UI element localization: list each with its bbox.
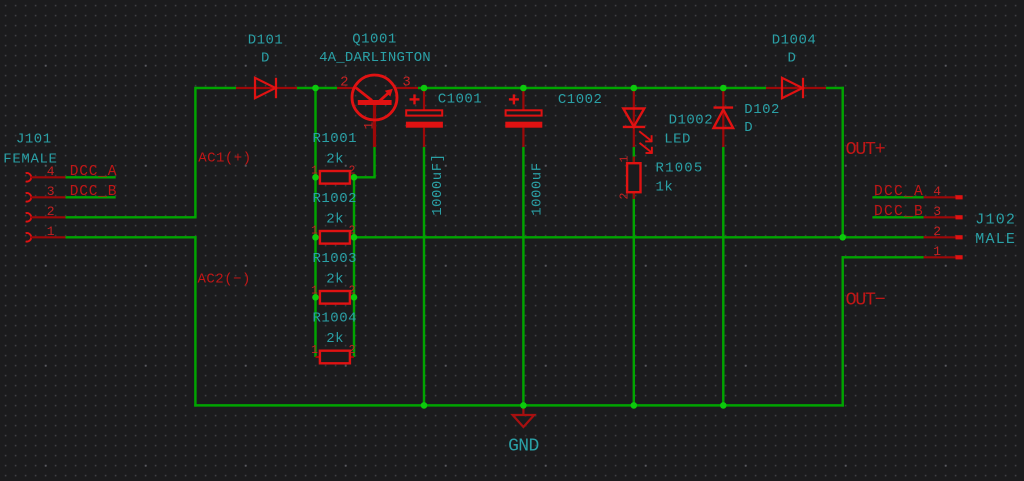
LED D1002 [623, 109, 653, 154]
node: D101 cathode / left rail top [312, 85, 319, 92]
svg-text:DCC_B: DCC_B [874, 204, 924, 220]
net label DCC_B (J102) [874, 204, 924, 220]
node: R1005 bottom / GND bus [631, 402, 638, 409]
connector J101 name labels [3, 132, 57, 168]
svg-text:D101: D101 [248, 33, 284, 49]
resistor R1002 [311, 224, 355, 243]
transistor Q1001 labels [319, 32, 431, 67]
wire: LED cathode through R1005 to bottom bus [633, 147, 635, 405]
capacitor C1002 [505, 94, 542, 127]
svg-text:AC2(−): AC2(−) [198, 272, 251, 288]
wire: top bus AC1 segment from corner to D101 [195, 87, 236, 89]
svg-text:DCC_A: DCC_A [874, 184, 924, 200]
node: R1002 pin2 / mid bus [351, 234, 358, 241]
transistor Q1001 body [352, 75, 397, 120]
svg-text:R1002: R1002 [313, 191, 358, 207]
resistor R1005 pin leads [633, 157, 635, 200]
svg-text:J101: J101 [16, 132, 52, 148]
wire: C1001 lower lead to bottom bus [423, 147, 425, 405]
svg-text:4: 4 [47, 164, 55, 179]
wire: top bus D1004 cathode to OUT+ corner [826, 87, 844, 89]
svg-text:D1002: D1002 [669, 113, 714, 129]
wire: J101 pin2 horizontal [66, 216, 197, 218]
svg-text:2k: 2k [326, 151, 344, 167]
transistor Q1001 pin1 lead [373, 104, 376, 147]
wire: resistor bank left rail [314, 88, 316, 357]
svg-text:1: 1 [618, 156, 631, 163]
ground symbol [513, 405, 535, 427]
capacitor C1002 labels [529, 92, 602, 216]
wire: J101 pin1 horizontal AC2(-) [66, 236, 197, 238]
transistor Q1001 pin numbers [340, 75, 411, 130]
connector J102 name labels [975, 211, 1016, 248]
svg-text:MALE: MALE [975, 231, 1016, 248]
node: LED D1002 top [631, 85, 638, 92]
svg-text:C1001: C1001 [438, 92, 483, 108]
svg-text:1000uF: 1000uF [529, 162, 545, 215]
transistor Q1001 pin3 lead [396, 87, 418, 89]
node: OUT+ / J102 pin2 [839, 234, 846, 241]
svg-text:D: D [744, 120, 753, 136]
node: R1001 pin2 / emitter [351, 174, 358, 181]
wire: resistor bank right rail [353, 177, 355, 357]
node: C1002 top [520, 85, 527, 92]
net label OUT+ [846, 139, 886, 160]
connector J102 pin 2 [924, 224, 963, 240]
wire: bottom GND bus [194, 404, 844, 406]
diode D102 labels [744, 102, 780, 136]
LED D1002 labels [664, 113, 713, 148]
diode D101 [255, 78, 276, 98]
resistor R1004 labels [313, 311, 358, 348]
capacitor C1002 leads [522, 88, 524, 147]
node: R1003 pin2 [351, 294, 358, 301]
net label AC1(+) [198, 151, 251, 167]
wire: J102 pin1 horizontal OUT- [842, 256, 924, 258]
svg-text:2k: 2k [326, 211, 344, 227]
node: D102 top [720, 85, 727, 92]
resistor R1004 [311, 344, 355, 363]
svg-text:OUT−: OUT− [846, 290, 886, 311]
net label DCC_A (J102) [874, 184, 924, 200]
wire: J102 pin4 stub DCC_A [872, 196, 923, 198]
svg-text:R1001: R1001 [313, 131, 358, 147]
svg-text:2k: 2k [326, 271, 344, 287]
svg-text:3: 3 [47, 184, 55, 199]
resistor R1002 labels [313, 191, 358, 228]
capacitor C1001 leads [423, 88, 425, 147]
svg-text:4A_DARLINGTON: 4A_DARLINGTON [319, 50, 431, 66]
node: D102 bottom / GND bus [720, 402, 727, 409]
svg-text:J102: J102 [975, 211, 1016, 228]
wire: C1002 lower lead to bottom bus [522, 147, 524, 405]
net label OUT- [846, 290, 886, 311]
wire: J101 pin3 stub to DCC_B label [66, 196, 116, 198]
svg-text:2k: 2k [326, 331, 344, 347]
svg-text:1000uF]: 1000uF] [430, 153, 446, 215]
svg-text:1: 1 [47, 224, 55, 239]
node: R1003 pin1 [312, 294, 319, 301]
svg-text:2: 2 [340, 75, 348, 91]
resistor R1001 labels [313, 131, 358, 168]
net label DCC_A (J101) [70, 164, 118, 180]
svg-text:D: D [788, 51, 797, 67]
diode D101 labels [248, 33, 284, 67]
capacitor C1001 labels [430, 92, 482, 216]
net label DCC_B (J101) [70, 184, 118, 200]
node: C1001 top [421, 85, 428, 92]
wire: AC2(-) vertical down to bottom bus [194, 236, 196, 407]
diode D1004 pins [766, 87, 826, 89]
svg-text:4: 4 [933, 184, 941, 199]
node: R1001 pin1 [312, 174, 319, 181]
svg-text:D102: D102 [744, 102, 780, 118]
transistor Q1001 pin2 lead [337, 87, 353, 89]
ground GND label [508, 437, 539, 457]
capacitor C1001 [406, 94, 443, 127]
svg-text:AC1(+): AC1(+) [198, 151, 251, 167]
wire: J101 pin4 stub to DCC_A label [66, 176, 116, 178]
connector J101 pin 4 [26, 164, 66, 182]
wire: Q1001 emitter down then left to right rail [354, 147, 376, 177]
diode D101 pins [236, 87, 297, 89]
connector J101 pin 3 [26, 184, 66, 202]
connector J102 pin 1 [924, 244, 963, 260]
connector J101 pin 2 [26, 204, 66, 222]
wire: D102 anode lead to bottom bus [722, 147, 724, 405]
svg-text:DCC_A: DCC_A [70, 164, 118, 180]
svg-text:1: 1 [311, 344, 318, 357]
svg-text:2: 2 [349, 344, 356, 357]
svg-text:OUT+: OUT+ [846, 139, 886, 160]
resistor R1005 [618, 156, 640, 200]
connector J101 pin 1 [26, 224, 66, 242]
resistor R1005 labels [656, 161, 704, 196]
svg-text:DCC_B: DCC_B [70, 184, 118, 200]
wire: OUT+ vertical from top bus to mid bus [841, 87, 843, 238]
svg-text:1: 1 [362, 122, 377, 130]
connector J102 pin 4 [924, 184, 963, 200]
svg-text:2: 2 [47, 204, 55, 219]
wire: J102 pin3 stub DCC_B [872, 216, 923, 218]
diode D102 [714, 108, 734, 128]
svg-text:2: 2 [618, 193, 631, 200]
svg-text:R1003: R1003 [313, 251, 358, 267]
svg-text:2: 2 [933, 224, 941, 239]
svg-text:R1004: R1004 [313, 311, 358, 327]
resistor R1003 [311, 284, 355, 303]
net label AC2(-) [198, 272, 251, 288]
node: C1002 bottom / GND [520, 402, 527, 409]
node: C1001 bottom / GND bus [421, 402, 428, 409]
svg-text:GND: GND [508, 437, 539, 457]
svg-text:3: 3 [933, 204, 941, 219]
svg-text:C1002: C1002 [558, 92, 603, 108]
diode D1004 [782, 78, 803, 98]
wire: top bus Q1001 pin3 to D1004 anode [418, 87, 766, 89]
svg-text:1: 1 [933, 244, 941, 259]
wire: AC1(+) vertical from J101 pin2 up to top bus [194, 87, 196, 218]
svg-text:LED: LED [664, 132, 691, 148]
svg-text:Q1001: Q1001 [352, 32, 397, 48]
diode D102 leads [722, 88, 724, 147]
LED D1002 leads [633, 88, 635, 147]
wire: top bus D101 cathode to Q1001 base [296, 87, 337, 89]
wire: middle bus R1002 pin2 to J102 pin2 [354, 236, 924, 238]
diode D1004 labels [772, 33, 817, 67]
resistor R1001 [311, 164, 355, 183]
svg-text:D1004: D1004 [772, 33, 817, 49]
node: R1002 pin1 [312, 234, 319, 241]
svg-text:R1005: R1005 [656, 161, 704, 177]
svg-text:1k: 1k [656, 179, 674, 195]
svg-text:D: D [261, 51, 270, 67]
connector J102 pin 3 [924, 204, 963, 220]
resistor R1003 labels [313, 251, 358, 288]
svg-text:3: 3 [402, 75, 410, 91]
wire: OUT- riser up from bottom bus [841, 256, 843, 407]
